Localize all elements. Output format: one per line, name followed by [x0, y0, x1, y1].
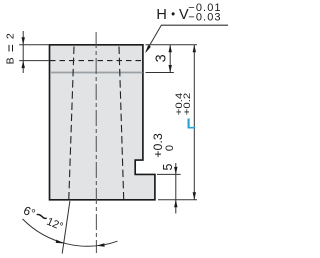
gray line ext right: [146, 72, 174, 74]
dim L line: [193, 45, 195, 200]
dim B line: [22, 31, 24, 73]
HV leader arrow: [145, 45, 151, 53]
angle text 6~12: [20, 197, 69, 237]
HV underline: [161, 24, 228, 26]
angle arc: [23, 219, 118, 246]
top ext line right: [146, 44, 198, 46]
dim 5 line: [175, 163, 177, 214]
dim 5 arrow bottom: [174, 200, 177, 208]
dim B arrow top: [22, 37, 25, 45]
dim 3 line: [169, 45, 171, 73]
right taper hidden line: [119, 47, 124, 200]
left taper hidden line: [69, 47, 74, 200]
dim 3 arrow top: [169, 45, 172, 53]
dim B arrow bottom: [22, 61, 25, 69]
svg-text:•: •: [171, 9, 175, 21]
dim B ext bottom: [19, 60, 48, 62]
angle extension line: [62, 201, 70, 254]
dim 3 arrow bottom: [169, 65, 172, 73]
dim L arrow bottom: [193, 192, 196, 200]
svg-text:H: H: [156, 7, 166, 23]
dim L arrow top: [193, 45, 196, 53]
HV leader: [146, 25, 161, 51]
part body outline: [50, 45, 155, 200]
arc arrow left: [56, 240, 64, 244]
svg-text:3: 3: [153, 54, 169, 62]
center line: [95, 32, 97, 253]
bottom ext line: [158, 199, 197, 201]
svg-text:+0.2: +0.2: [182, 93, 192, 116]
gray line (cutting edge ref): [50, 72, 143, 74]
step ext line: [157, 173, 181, 175]
arc arrow right: [97, 243, 105, 246]
svg-text:0: 0: [164, 145, 176, 151]
dim B ext top: [19, 44, 48, 46]
svg-text:−0.03: −0.03: [188, 11, 221, 23]
svg-text:B=2: B=2: [3, 28, 18, 64]
svg-text:L: L: [187, 115, 196, 132]
svg-text:5: 5: [161, 163, 175, 170]
dim 5 arrow top: [174, 167, 177, 175]
dashed line land depth (B level): [50, 60, 143, 62]
